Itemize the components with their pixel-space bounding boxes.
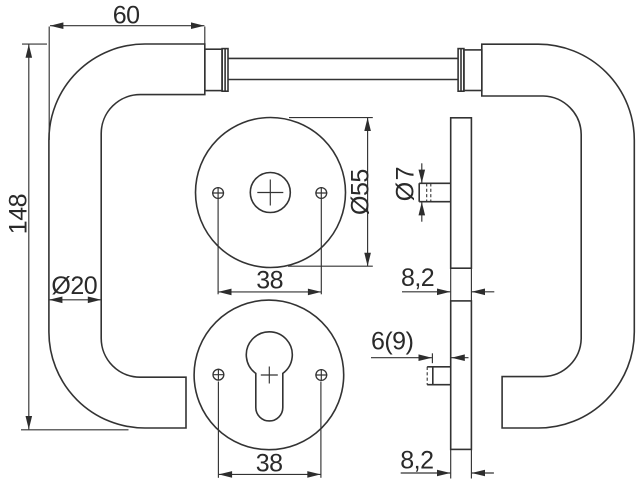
dim 8,2 top arrows [437,289,450,296]
dim 38 top arrows [218,289,231,296]
dim 60 line [50,25,204,27]
dim 148 arrows [26,44,33,57]
rosette top (front view circle) [196,118,346,268]
svg-text:Ø20: Ø20 [51,272,97,300]
ring left inner line [224,49,226,92]
dim 60 arrows [50,22,63,29]
ring left [222,49,228,92]
dim 148 extension lines [22,43,47,45]
rosette top side view plate [451,118,472,268]
bottom fixing screw (side view) [427,367,451,385]
svg-text:38: 38 [256,267,283,295]
dim 6(9) tick [431,353,433,363]
dim 60 extension lines [48,27,50,141]
dim 8,2 bottom arrow lines [401,472,451,474]
dim 38 top line [218,291,321,293]
dim 8,2 bottom arrows [437,470,450,477]
euro profile cylinder cutout [246,332,292,421]
dim O55 line [367,118,369,267]
rosette bottom (front view circle) [194,300,344,450]
rosette top center cross [257,180,283,206]
lever handle left (outline) [49,44,205,428]
top fixing pin (side view) [419,183,451,201]
lever handle right (outline) [482,44,635,428]
svg-text:8,2: 8,2 [400,447,433,475]
svg-text:8,2: 8,2 [401,264,434,292]
screw bottom-right [316,370,327,381]
ring right inner line [460,49,462,92]
rosette bottom side view plate [451,301,472,450]
dim 6(9) arrow lines [371,357,432,359]
collar right [464,50,482,91]
dim O55 arrows [364,118,371,131]
screw bottom-left [213,369,224,380]
dim 8,2 top extension lines [450,268,452,301]
rosette top center hole [250,173,290,213]
dim 38 bottom extension lines [217,382,219,478]
spindle (square bar) [228,57,458,59]
dim 8,2 bottom extension lines [450,449,452,478]
dim O7 arrows [419,170,426,183]
ring right [458,49,464,92]
screw top-right [316,188,327,199]
collar left [205,49,222,90]
svg-text:Ø55: Ø55 [346,169,374,215]
euro profile cross [261,367,278,384]
dim 38 top extension lines [217,199,219,294]
dim 38 bottom line [219,473,321,475]
dim O20 line [49,299,101,301]
dim O55 extension lines [289,117,373,119]
svg-text:60: 60 [113,1,140,29]
dim 148 line [28,44,30,429]
svg-text:Ø7: Ø7 [392,165,420,201]
svg-text:6(9): 6(9) [371,328,413,356]
top pin thread dashes [426,183,428,201]
screw top-left [213,188,224,199]
svg-text:38: 38 [256,450,283,478]
dim O7 arrow lines [421,163,423,182]
dim 38 bottom arrows [219,471,232,478]
dim 6(9) arrows [419,354,432,361]
svg-text:148: 148 [4,194,32,234]
bottom screw thread dashes [426,367,428,385]
dim O20 arrows [49,297,62,304]
dim 8,2 top arrow lines [402,291,450,293]
